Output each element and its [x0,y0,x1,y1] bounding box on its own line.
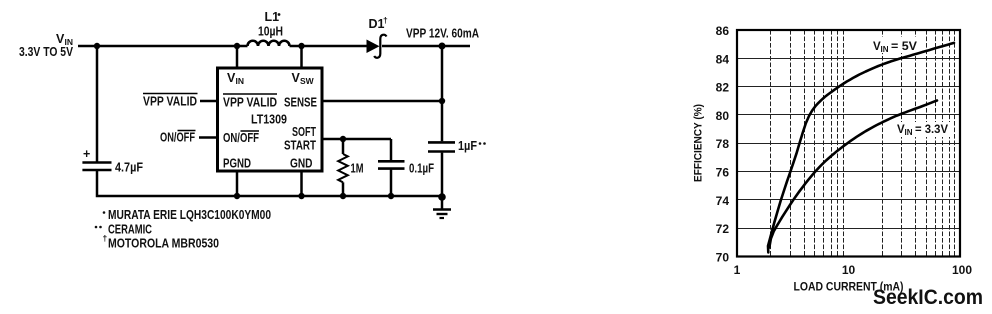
svg-text:ON/OFF: ON/OFF [223,131,259,145]
svg-text:86: 86 [716,24,730,38]
svg-text:ON/OFF: ON/OFF [160,131,195,145]
svg-text:4.7µF: 4.7µF [115,161,143,175]
svg-text:80: 80 [716,109,730,123]
svg-text:L1: L1 [265,10,280,24]
svg-text:IN: IN [881,45,889,54]
svg-text:84: 84 [716,52,730,66]
svg-text:78: 78 [716,137,730,151]
svg-text:SW: SW [300,76,315,86]
svg-text:PGND: PGND [223,157,251,171]
svg-text:SOFT: SOFT [292,125,316,139]
svg-text:START: START [284,139,316,153]
svg-text:+: + [83,147,90,161]
svg-text:VPP VALID: VPP VALID [223,96,277,110]
svg-text:IN: IN [905,128,913,137]
svg-text:100: 100 [952,263,972,277]
svg-text:EFFICIENCY (%): EFFICIENCY (%) [693,104,705,182]
svg-text:0.1µF: 0.1µF [409,162,434,176]
svg-text:1µF: 1µF [458,139,477,153]
svg-text:82: 82 [716,81,730,95]
svg-text:72: 72 [716,222,730,236]
svg-text:CERAMIC: CERAMIC [108,223,152,237]
svg-text:74: 74 [716,194,730,208]
svg-text:= 3.3V: = 3.3V [915,124,948,136]
svg-text:GND: GND [290,157,313,171]
svg-text:3.3V TO 5V: 3.3V TO 5V [19,45,74,59]
svg-text:IN: IN [236,76,245,86]
svg-text:SeekIC.com: SeekIC.com [873,285,983,309]
svg-text:= 5V: = 5V [891,41,917,53]
svg-text:70: 70 [716,251,730,265]
svg-text:VPP VALID: VPP VALID [143,95,197,109]
svg-text:10µH: 10µH [258,25,283,39]
svg-text:1: 1 [734,263,741,277]
svg-text:MOTOROLA MBR0530: MOTOROLA MBR0530 [108,237,219,251]
svg-text:LT1309: LT1309 [251,113,287,127]
svg-text:10: 10 [842,263,856,277]
svg-text:VPP 12V. 60mA: VPP 12V. 60mA [406,27,479,41]
svg-text:†: † [383,15,388,25]
svg-text:MURATA ERIE LQH3C100K0YM00: MURATA ERIE LQH3C100K0YM00 [108,208,271,222]
svg-text:SENSE: SENSE [284,96,317,110]
svg-text:1M: 1M [351,162,364,176]
svg-text:76: 76 [716,166,730,180]
svg-text:†: † [103,233,108,243]
